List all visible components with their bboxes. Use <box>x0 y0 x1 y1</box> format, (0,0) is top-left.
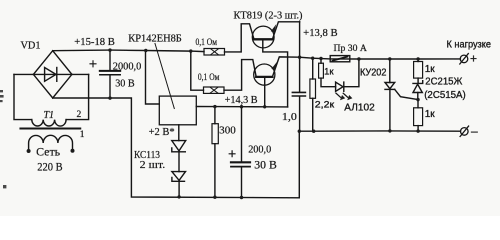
wire 2,2k top <box>312 58 314 79</box>
wire 1k lower to rail <box>417 126 419 132</box>
capacitor C1 2000,0 positive plate <box>100 70 120 72</box>
capacitor C 200,0 plus plate <box>231 161 250 163</box>
junction dots +14,3 wire <box>213 105 266 109</box>
bridge diode symbol <box>33 68 72 82</box>
wire top rail +15-18V <box>53 50 191 51</box>
Q1 base bar <box>254 38 272 40</box>
wire R300 top lead <box>214 107 216 124</box>
svg-text:1,0: 1,0 <box>282 112 297 123</box>
resistor R 2,2к body <box>310 79 316 98</box>
svg-text:2С215Ж: 2С215Ж <box>425 76 462 87</box>
svg-text:1к: 1к <box>425 64 436 75</box>
bridge rectifier VD1 diamond <box>33 51 72 98</box>
svg-text:2000,0: 2000,0 <box>113 61 142 72</box>
label C1 plus <box>90 61 96 67</box>
capacitor C 200,0 bottom plate <box>231 166 250 168</box>
svg-text:1: 1 <box>80 130 85 140</box>
svg-text:+2 В*: +2 В* <box>149 127 175 138</box>
Q1 emitter with arrow <box>271 22 300 40</box>
wire regulator input from top rail <box>146 51 160 105</box>
wire R1 to Q1 collector <box>225 24 255 52</box>
svg-text:30 В: 30 В <box>115 77 135 89</box>
zener 2С215Ж <box>413 78 423 92</box>
junction dots bottom rails <box>177 98 419 199</box>
svg-text:АЛ102: АЛ102 <box>344 102 375 113</box>
svg-text:30 В: 30 В <box>254 159 277 171</box>
svg-text:КУ202: КУ202 <box>360 68 387 79</box>
wire emitter node down to 1,0 cap <box>299 22 301 92</box>
wire 1k to LED <box>321 78 336 87</box>
fuse Пр 30 А body <box>330 56 350 62</box>
Q2 base bar <box>256 76 272 78</box>
wire 1k upper lead <box>417 59 419 62</box>
wire LED cathode to after-fuse rail <box>344 59 359 87</box>
svg-text:+13,8 В: +13,8 В <box>303 28 338 39</box>
resistor R2 0,1 Ом body <box>204 87 225 93</box>
svg-text:0,1 Ом: 0,1 Ом <box>196 37 218 48</box>
svg-text:1к: 1к <box>324 67 334 78</box>
wire C200 bottom lead <box>241 168 243 198</box>
Q2 emitter with arrow <box>271 57 299 77</box>
svg-text:0,1 Ом: 0,1 Ом <box>198 72 220 83</box>
svg-text:220 В: 220 В <box>37 162 63 174</box>
svg-text:2: 2 <box>77 110 82 120</box>
primary terminal dots <box>27 149 75 153</box>
capacitor C1 2000,0 negative plate <box>100 74 120 76</box>
thyristor gate wire <box>395 89 418 99</box>
Q2 base lead <box>264 77 266 107</box>
transformer T1 secondary winding (winding 2) <box>14 74 89 126</box>
svg-text:КР142ЕН8Б: КР142ЕН8Б <box>128 34 182 45</box>
R1 X mark <box>211 49 219 55</box>
svg-text:+14,3 В: +14,3 В <box>225 95 258 106</box>
wire negative rail from bridge bottom <box>53 98 300 198</box>
svg-text:1к: 1к <box>425 109 436 120</box>
transformer T1 core <box>21 127 81 129</box>
thyristor cathode lead <box>389 89 391 130</box>
svg-text:Т1: Т1 <box>44 110 55 121</box>
svg-text:+: + <box>470 52 477 66</box>
fuse diagonal <box>333 57 348 61</box>
svg-text:Сеть: Сеть <box>36 146 60 158</box>
LED arrows <box>336 93 352 100</box>
callout line to regulator <box>155 44 174 109</box>
resistor R 1к lower right body <box>414 108 423 126</box>
wire C1 top lead <box>109 50 111 70</box>
svg-text:К нагрузке: К нагрузке <box>447 40 492 51</box>
transistor Q2 KT819 circle <box>254 64 275 85</box>
wire 2,2k bottom <box>312 98 314 131</box>
svg-text:300: 300 <box>219 125 236 137</box>
wire zener node to 1k lower <box>417 100 419 108</box>
svg-text:200,0: 200,0 <box>248 144 271 155</box>
wire between KC113 diodes <box>178 152 180 172</box>
wire tee down to R2 <box>191 51 204 90</box>
svg-text:2,2к: 2,2к <box>315 99 335 110</box>
wire KC113 to bottom rail <box>178 181 180 197</box>
Q1 base lead <box>263 39 288 107</box>
wire +13,8 output rail <box>300 57 461 59</box>
resistor R 1к upper right body <box>414 62 423 79</box>
wire bridge left vertex to secondary left <box>14 73 33 75</box>
capacitor C 1,0 plates <box>292 92 305 96</box>
wire bridge right vertex down to secondary right <box>72 73 89 75</box>
wire R300 bottom lead <box>214 144 216 198</box>
scan artifact left edge <box>0 90 6 188</box>
zener VD КС113 #2 <box>172 172 186 182</box>
wire R2 to Q2 collector <box>224 60 256 91</box>
zener VD КС113 #1 <box>172 141 186 152</box>
resistor R1 0,1 Ом body <box>204 49 225 56</box>
svg-text:Пр 30 А: Пр 30 А <box>334 43 367 54</box>
thyristor КУ202 symbol <box>385 83 395 90</box>
output terminal plus <box>460 54 469 64</box>
R2 X mark <box>210 87 218 93</box>
svg-text:КТ819 (2-3 шт.): КТ819 (2-3 шт.) <box>234 10 303 21</box>
wire 1k top <box>320 59 322 64</box>
svg-text:–: – <box>471 124 478 138</box>
wire regulator output <box>196 106 287 108</box>
label C200 plus <box>229 151 235 157</box>
junction dots +13,8 rail <box>298 56 420 61</box>
resistor R 300 body <box>212 124 218 144</box>
svg-text:VD1: VD1 <box>21 40 41 51</box>
junction dots top rail <box>108 48 192 99</box>
regulator U1 KR142EN8B box <box>159 96 196 125</box>
wire rail to R1 <box>191 50 204 53</box>
transistor Q1 KT819 circle <box>252 26 274 48</box>
LED АЛ102 <box>336 82 344 91</box>
wire zener to gate node <box>417 93 419 100</box>
wire 1,0 cap bottom <box>299 97 301 132</box>
wire C200 top lead <box>241 107 243 162</box>
thyristor КУ202 anode lead <box>389 59 391 83</box>
output terminal minus <box>460 126 469 136</box>
wire regulator bottom pin <box>178 125 180 141</box>
wire C1 bottom lead <box>109 75 111 98</box>
wire bottom right rail <box>299 130 460 132</box>
svg-text:+15-18 В: +15-18 В <box>74 37 115 48</box>
svg-text:2 шт.: 2 шт. <box>140 159 166 171</box>
resistor R 1к (LED) body <box>319 63 324 78</box>
transformer T1 primary winding (winding 1) <box>29 135 73 148</box>
svg-text:(2С515А): (2С515А) <box>424 90 466 101</box>
